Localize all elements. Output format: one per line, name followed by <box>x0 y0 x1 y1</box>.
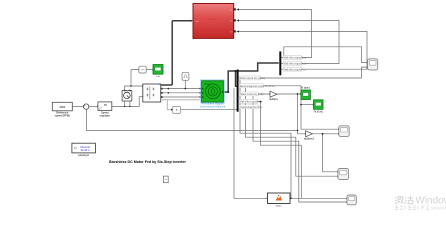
svg-text:Gates: Gates <box>276 204 283 207</box>
svg-text:Windows: Windows <box>431 205 446 210</box>
svg-text:Hall effect signal h_b: Hall effect signal h_b <box>284 63 307 66</box>
svg-text:N (rpm): N (rpm) <box>302 87 310 90</box>
svg-text:Hall effect signal h_c: Hall effect signal h_c <box>284 68 307 71</box>
svg-text:Rotor speed wm (rad/s): Rotor speed wm (rad/s) <box>240 77 265 80</box>
svg-text:Hall effect signal h_a: Hall effect signal h_a <box>240 101 263 104</box>
svg-text:Brushless DC Motor Fed by Six-: Brushless DC Motor Fed by Six-Step Inver… <box>109 160 186 164</box>
svg-text:emf: emf <box>195 21 199 23</box>
svg-text:Trapezoidal flux (V.s): Trapezoidal flux (V.s) <box>240 106 262 109</box>
svg-text:PI: PI <box>104 103 107 107</box>
svg-text:rad2rpm: rad2rpm <box>269 98 278 101</box>
svg-text:Hall effect signal h_a: Hall effect signal h_a <box>284 57 307 60</box>
svg-text:Speed: Speed <box>101 111 109 115</box>
svg-text:Electromagnetic torque Te (N*m: Electromagnetic torque Te (N*m) <box>240 85 275 88</box>
svg-text:Te (N.m): Te (N.m) <box>314 110 323 113</box>
svg-text:powergui: powergui <box>78 153 89 157</box>
svg-text:rad2rpm1: rad2rpm1 <box>304 137 315 140</box>
svg-text:Stator current is_a (A): Stator current is_a (A) <box>240 93 264 96</box>
svg-text:v dc: v dc <box>156 76 161 78</box>
